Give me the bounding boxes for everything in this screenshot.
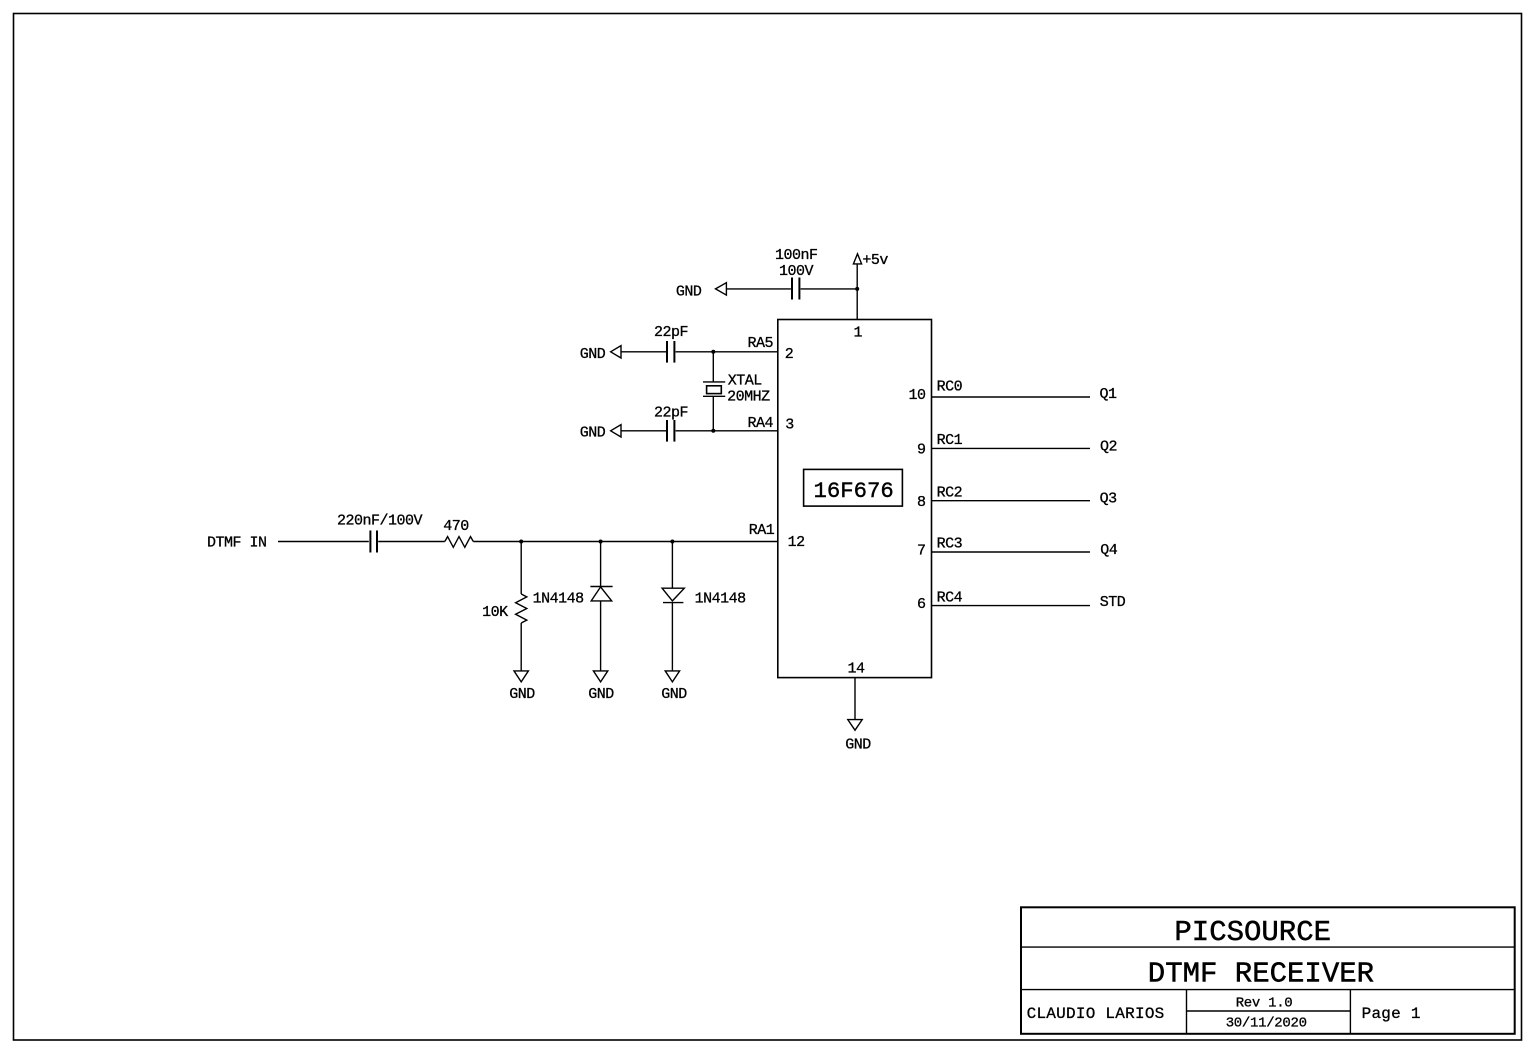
svg-text:1N4148: 1N4148 xyxy=(695,591,747,608)
svg-text:XTAL: XTAL xyxy=(728,373,763,390)
svg-text:GND: GND xyxy=(580,346,606,363)
svg-text:GND: GND xyxy=(676,284,702,301)
svg-text:220nF/100V: 220nF/100V xyxy=(337,512,423,529)
svg-text:1: 1 xyxy=(854,325,863,342)
svg-text:12: 12 xyxy=(788,534,805,551)
svg-text:RC1: RC1 xyxy=(937,432,963,449)
svg-text:Q3: Q3 xyxy=(1100,491,1118,508)
svg-text:8: 8 xyxy=(917,494,926,511)
svg-text:30/11/2020: 30/11/2020 xyxy=(1226,1016,1307,1032)
svg-text:Page 1: Page 1 xyxy=(1362,1005,1421,1023)
svg-text:1N4148: 1N4148 xyxy=(533,591,585,608)
svg-text:10K: 10K xyxy=(482,604,508,621)
svg-text:PICSOURCE: PICSOURCE xyxy=(1174,916,1331,949)
svg-text:6: 6 xyxy=(917,596,926,613)
svg-text:RC0: RC0 xyxy=(937,379,963,396)
svg-text:RC3: RC3 xyxy=(937,536,963,553)
svg-text:20MHZ: 20MHZ xyxy=(727,389,770,406)
svg-text:Q1: Q1 xyxy=(1100,386,1118,403)
svg-text:22pF: 22pF xyxy=(654,324,688,341)
svg-text:100V: 100V xyxy=(779,263,814,280)
svg-text:Rev 1.0: Rev 1.0 xyxy=(1236,996,1293,1012)
svg-text:DTMF RECEIVER: DTMF RECEIVER xyxy=(1148,957,1374,990)
svg-text:10: 10 xyxy=(908,387,926,404)
svg-text:14: 14 xyxy=(847,661,865,678)
svg-text:RA1: RA1 xyxy=(749,522,775,539)
svg-text:RC4: RC4 xyxy=(937,589,963,606)
svg-text:GND: GND xyxy=(661,686,687,703)
svg-text:16F676: 16F676 xyxy=(813,478,893,504)
svg-text:22pF: 22pF xyxy=(654,404,688,421)
svg-text:CLAUDIO LARIOS: CLAUDIO LARIOS xyxy=(1027,1005,1165,1023)
svg-text:100nF: 100nF xyxy=(775,247,818,264)
svg-text:DTMF IN: DTMF IN xyxy=(207,535,267,552)
svg-text:+5v: +5v xyxy=(862,252,888,269)
svg-text:Q4: Q4 xyxy=(1100,542,1118,559)
svg-text:GND: GND xyxy=(509,686,535,703)
svg-text:7: 7 xyxy=(917,543,926,560)
svg-text:3: 3 xyxy=(785,417,794,434)
svg-text:RA4: RA4 xyxy=(747,415,773,432)
svg-text:470: 470 xyxy=(443,518,469,535)
svg-text:GND: GND xyxy=(588,686,614,703)
svg-text:RA5: RA5 xyxy=(747,335,773,352)
svg-text:STD: STD xyxy=(1100,594,1126,611)
svg-text:GND: GND xyxy=(580,425,606,442)
svg-text:9: 9 xyxy=(917,442,926,459)
svg-text:GND: GND xyxy=(845,737,871,754)
svg-text:RC2: RC2 xyxy=(937,485,963,502)
svg-text:2: 2 xyxy=(785,346,794,363)
svg-text:Q2: Q2 xyxy=(1100,438,1117,455)
